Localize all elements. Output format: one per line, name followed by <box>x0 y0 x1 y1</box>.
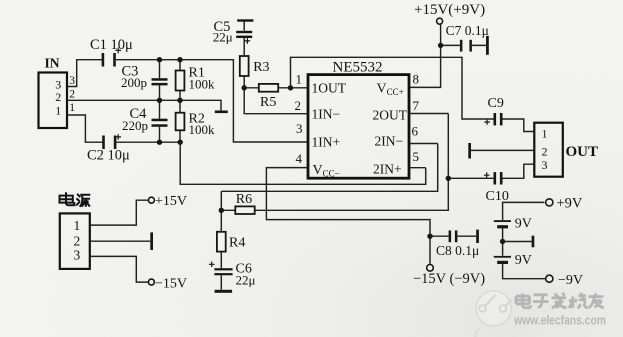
svg-text:1: 1 <box>296 72 303 87</box>
svg-text:8: 8 <box>413 72 420 87</box>
svg-text:3: 3 <box>74 247 81 262</box>
svg-text:1IN+: 1IN+ <box>312 134 341 149</box>
svg-text:5: 5 <box>413 149 420 164</box>
svg-text:220p: 220p <box>122 118 148 133</box>
svg-text:2: 2 <box>69 89 75 101</box>
svg-text:R3: R3 <box>253 60 269 75</box>
svg-text:2IN−: 2IN− <box>375 134 404 149</box>
svg-text:2: 2 <box>295 98 302 113</box>
svg-text:C10: C10 <box>486 189 509 204</box>
svg-text:2: 2 <box>55 90 61 104</box>
svg-text:+9V: +9V <box>557 196 583 212</box>
svg-text:−15V: −15V <box>155 277 187 292</box>
svg-text:2IN+: 2IN+ <box>373 162 402 177</box>
svg-text:1IN−: 1IN− <box>312 107 341 122</box>
svg-text:OUT: OUT <box>566 144 599 160</box>
svg-text:2: 2 <box>542 145 548 159</box>
svg-text:3: 3 <box>296 121 303 136</box>
svg-text:3: 3 <box>542 158 548 172</box>
svg-text:2OUT: 2OUT <box>373 108 408 123</box>
svg-text:22μ: 22μ <box>236 273 256 288</box>
svg-text:NE5532: NE5532 <box>333 59 383 75</box>
svg-text:−9V: −9V <box>558 273 583 288</box>
svg-text:C8 0.1μ: C8 0.1μ <box>436 243 479 258</box>
svg-text:R4: R4 <box>229 236 245 251</box>
svg-text:−15V (−9V): −15V (−9V) <box>413 271 485 287</box>
svg-text:C7 0.1μ: C7 0.1μ <box>446 23 489 38</box>
svg-text:9V: 9V <box>515 253 532 268</box>
svg-text:C9: C9 <box>488 96 504 111</box>
svg-text:7: 7 <box>413 98 420 113</box>
svg-text:1: 1 <box>74 218 81 233</box>
svg-text:100k: 100k <box>189 122 216 137</box>
svg-text:9V: 9V <box>515 217 532 232</box>
svg-text:www.elecfans.com: www.elecfans.com <box>513 314 606 328</box>
svg-text:C2 10μ: C2 10μ <box>87 148 130 164</box>
svg-text:1: 1 <box>542 127 548 141</box>
svg-text:4: 4 <box>296 151 303 166</box>
svg-text:R5: R5 <box>260 95 276 110</box>
svg-text:1OUT: 1OUT <box>312 81 347 96</box>
svg-text:200p: 200p <box>121 75 147 90</box>
svg-text:100k: 100k <box>189 77 216 92</box>
svg-text:6: 6 <box>412 124 419 139</box>
svg-text:+15V(+9V): +15V(+9V) <box>414 2 485 18</box>
svg-text:+15V: +15V <box>155 194 187 209</box>
svg-text:22μ: 22μ <box>213 30 233 45</box>
svg-text:1: 1 <box>55 103 61 117</box>
svg-text:C1 10μ: C1 10μ <box>90 37 133 53</box>
svg-text:3: 3 <box>69 75 75 87</box>
svg-text:IN: IN <box>45 56 60 71</box>
svg-text:2: 2 <box>74 233 81 248</box>
svg-text:1: 1 <box>69 102 75 114</box>
svg-text:R6: R6 <box>236 192 252 207</box>
